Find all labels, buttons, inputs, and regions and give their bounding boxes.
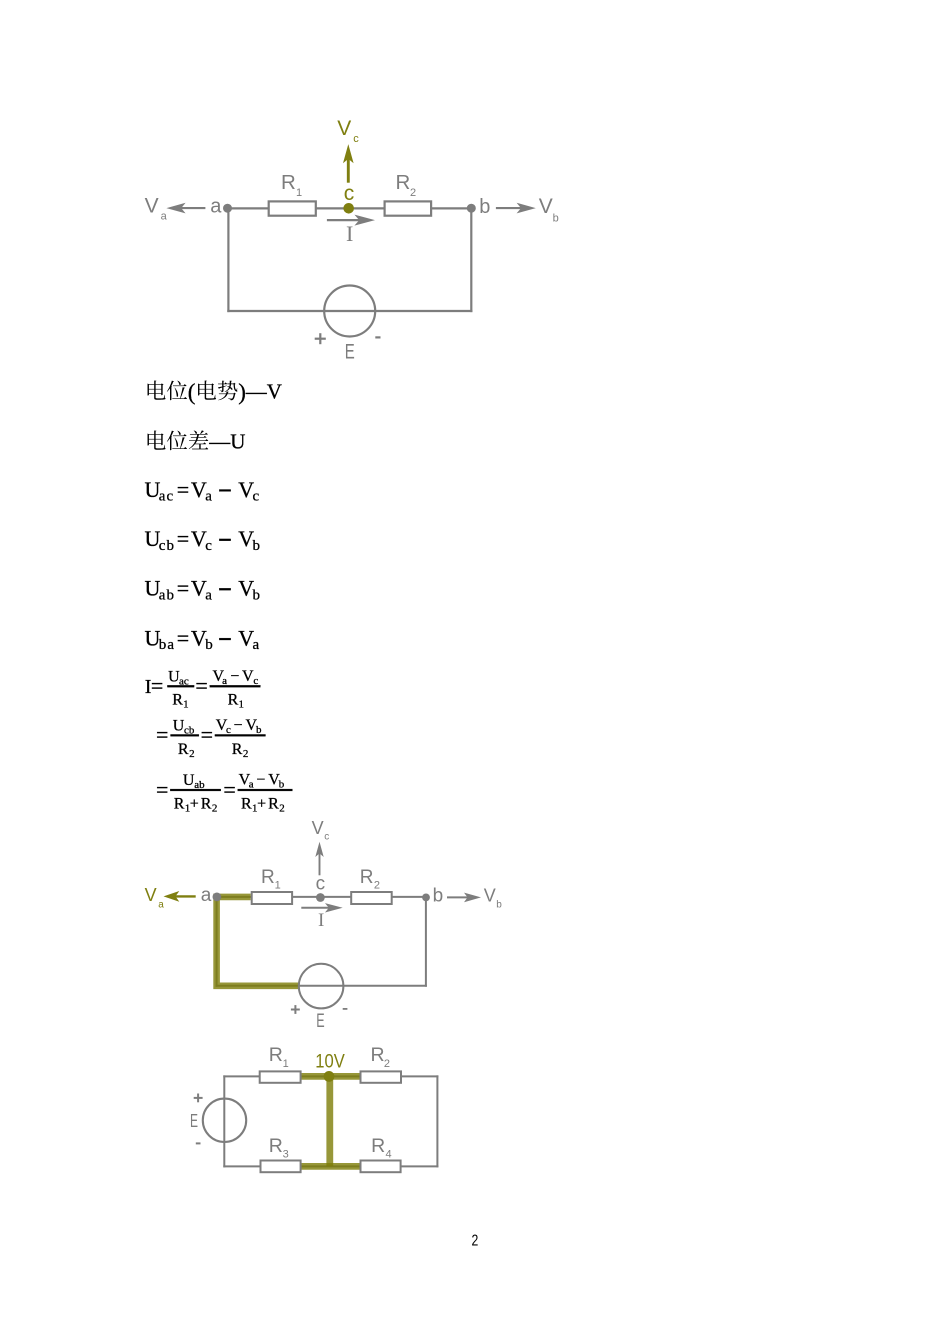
polarity -: [196, 1142, 201, 1144]
label R2: [360, 867, 380, 892]
arrow I: [327, 215, 375, 226]
label Vc (olive): [337, 117, 359, 145]
wire: circuit2 bottom: [216, 985, 427, 987]
wire: circuit2 right vertical from b: [425, 897, 427, 987]
label R4: [371, 1135, 392, 1161]
node b: [467, 204, 476, 213]
polarity +: [315, 333, 326, 344]
polarity +: [194, 1094, 203, 1103]
voltage source E circle: [324, 286, 375, 337]
label Va (olive): [145, 885, 165, 911]
node a: [223, 204, 232, 213]
wire: circuit3 right vertical: [436, 1075, 438, 1167]
resistor R3: [261, 1161, 301, 1173]
resistor R4: [361, 1161, 401, 1173]
highlighted path a-to-E (olive band): [217, 897, 299, 986]
resistor R2: [385, 201, 432, 215]
resistor R1: [269, 201, 316, 215]
label Vb: [484, 886, 503, 911]
node c (olive): [343, 203, 354, 214]
resistor R1: [260, 1071, 301, 1082]
arrow Vc (up): [315, 842, 323, 876]
wire: circuit1 right vertical from b: [470, 208, 472, 312]
label R1: [269, 1044, 289, 1070]
node c: [316, 893, 325, 902]
voltage source E circle: [299, 964, 344, 1009]
polarity -: [343, 1008, 348, 1010]
arrow Va: [166, 203, 205, 214]
label R1: [261, 867, 281, 892]
wire: circuit3 bottom: [223, 1165, 438, 1167]
label Vb: [539, 195, 559, 224]
polarity +: [291, 1005, 300, 1014]
arrow I: [301, 903, 342, 912]
resistor R2: [361, 1071, 402, 1082]
arrow Vb: [496, 203, 536, 214]
node a: [213, 893, 222, 902]
label Va: [145, 195, 168, 223]
node b: [422, 894, 430, 902]
wire: circuit3 top: [223, 1075, 438, 1077]
resistor R1: [252, 892, 292, 904]
resistor R2: [351, 892, 392, 904]
arrow Va (olive): [164, 891, 196, 902]
arrow Vb: [447, 893, 481, 903]
label R3: [269, 1135, 289, 1161]
voltage source E circle: [203, 1099, 246, 1142]
wire: circuit1 horizontal a-c-b: [228, 207, 472, 209]
svg-text:2: 2: [472, 1232, 479, 1249]
wire: circuit2 left vertical from a: [216, 897, 218, 987]
label Vc: [312, 818, 330, 842]
wire: circuit1 left vertical from a: [227, 208, 229, 312]
wire: circuit2 horizontal a-c-b: [217, 896, 426, 898]
label R2: [396, 171, 417, 199]
polarity -: [375, 336, 380, 338]
label R2: [371, 1044, 391, 1070]
arrow Vc (olive, up): [343, 144, 354, 183]
node 10V (olive dot): [324, 1071, 335, 1082]
wire: circuit3 left vertical: [223, 1075, 225, 1167]
wire: circuit1 bottom: [227, 310, 472, 312]
label R1: [281, 171, 302, 199]
highlighted node wires (olive bands): [298, 1076, 361, 1166]
